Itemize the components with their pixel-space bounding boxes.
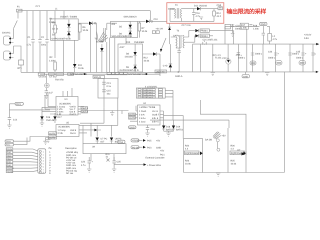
wire U3 pins left [42,107,56,114]
svg-text:OUT2: OUT2 [129,117,136,120]
svg-text:+24 VA: +24 VA [156,28,164,31]
wire U4 pins left [130,111,138,121]
svg-text:+24V out: +24V out [66,159,76,162]
svg-text:4 Rt: 4 Rt [57,113,62,116]
diode D16 [40,116,43,119]
svg-text:OutB 7: OutB 7 [152,114,160,117]
svg-text:1 OutA: 1 OutA [139,110,147,113]
net oval SB2 [131,146,139,149]
highlight red box [167,3,224,24]
ground g10 [46,140,50,143]
net oval GND2 [242,75,250,78]
svg-text:Gnd 5: Gnd 5 [70,113,77,116]
diode D18 [162,126,165,129]
svg-text:1: 1 [43,150,44,153]
svg-text:4 Gnd: 4 Gnd [139,121,146,124]
svg-text:10.0k: 10.0k [78,67,84,70]
svg-text:5: 5 [43,162,44,165]
thermistor RT1 [19,60,24,65]
svg-text:1000 u: 1000 u [268,57,276,60]
net label OUT3 [49,132,57,135]
wire fb lines [42,92,56,109]
svg-text:TNY278: TNY278 [55,79,64,82]
svg-text:C7 2n2: C7 2n2 [49,75,57,78]
svg-text:4: 4 [43,159,44,162]
capacitor C18 [146,125,149,133]
terminal out arrow [314,43,317,45]
wire vert x90 [90,23,92,72]
diode D7 [146,20,149,23]
svg-text:FQPF2N60M: FQPF2N60M [185,152,199,155]
diode D23 [94,129,97,132]
svg-text:1N4148: 1N4148 [125,56,134,59]
svg-text:PGood sig: PGood sig [66,169,77,172]
svg-text:C4 1n: C4 1n [52,28,59,31]
svg-text:Vcc 8: Vcc 8 [152,110,158,113]
svg-text:C25: C25 [117,161,122,164]
svg-text:0.1u: 0.1u [107,85,112,88]
svg-text:10.0k: 10.0k [185,163,191,166]
svg-text:U7 PC: U7 PC [101,138,108,141]
connector J1 pins [39,150,41,173]
wire column A [26,11,28,73]
net label box FR304a [200,29,209,32]
net oval CN4 [118,140,126,143]
capacitor C2 [38,11,41,73]
svg-text:GND: GND [7,151,12,154]
capacitor C12 [45,88,48,95]
AC plug P2 [4,51,11,60]
ground g4 [40,123,44,126]
wire U3 top stubs [63,88,72,97]
varistor RV1 [45,74,47,83]
switch SW1 [14,11,19,29]
wire TL431 col [193,44,239,72]
diode D5 [129,25,132,28]
svg-text:+24V: +24V [7,158,12,161]
svg-text:GND: GND [261,23,266,26]
ground g9 [216,173,220,176]
net label box BUS3 [56,73,64,75]
net label box R17 [240,23,248,29]
capacitor C1 [31,11,34,73]
diode D4 [73,64,76,67]
IC U4 [138,105,161,125]
svg-text:GND: GND [7,164,12,167]
svg-text:3 InA+: 3 InA+ [139,117,146,120]
svg-text:+5V: +5V [222,135,227,138]
svg-text:1000 u: 1000 u [296,57,304,60]
svg-text:DA DB: DA DB [205,139,212,142]
box caps group [98,78,118,98]
svg-text:+5V: +5V [156,140,161,143]
capacitor C3 [45,11,48,73]
svg-text:C17 2.2n: C17 2.2n [182,24,192,27]
wire U5 pins [46,130,95,138]
svg-text:GND: GND [156,146,161,149]
fuse F1 [17,9,23,12]
wire fb bus y120 [150,120,229,128]
mos cell left rails [184,139,203,173]
svg-text:C14: C14 [13,119,18,122]
svg-text:10.0k: 10.0k [142,30,148,33]
svg-text:R31: R31 [106,153,111,156]
svg-text:C35: C35 [296,51,301,54]
capacitor C31 [237,53,240,55]
svg-text:2: 2 [43,153,44,156]
junction sq2 [146,73,148,75]
svg-text:GND: GND [7,161,12,164]
diode D14 [169,64,172,67]
net label box FR304b [200,34,209,37]
svg-text:CY1: CY1 [36,5,41,8]
mosfet Q1 symbol [200,152,203,156]
svg-text:R17: R17 [241,24,246,27]
wire U3 pins right [78,107,88,114]
wire U4 right pins [160,111,164,120]
diode D2 [67,32,70,36]
wire stack to fb [165,90,173,120]
svg-text:R10: R10 [126,41,131,44]
wire vert x63 [63,40,65,72]
capacitor C16 [192,9,195,22]
svg-text:D16: D16 [46,116,51,119]
svg-text:SMAJ400/SMBJ154: SMAJ400/SMBJ154 [112,35,133,38]
svg-text:1 Comp: 1 Comp [58,129,67,132]
svg-text:2 Vfb: 2 Vfb [58,132,64,135]
svg-text:GND-A: GND-A [175,75,183,78]
svg-text:GAPGO4087-01 B: GAPGO4087-01 B [52,38,71,41]
ground g11 [87,169,91,172]
capacitor C24 [87,157,91,169]
svg-text:D17: D17 [58,116,63,119]
svg-text:1N5406M: 1N5406M [156,70,166,73]
ground g13 [43,138,47,145]
ground g12 [112,169,116,172]
svg-text:220u: 220u [41,44,47,47]
svg-text:PS-ON ctl: PS-ON ctl [66,156,77,159]
svg-text:6: 6 [43,165,44,168]
wire right drop [159,54,161,76]
wire clamp out [78,22,88,24]
diode D20 [242,152,245,155]
svg-text:1.40k: 1.40k [253,28,259,31]
ground snub [231,34,235,37]
winding arrow [161,38,166,50]
svg-text:C18: C18 [151,128,156,131]
TVS clamp box U2 [111,21,138,37]
svg-text:8: 8 [43,171,44,174]
wire fb elbow2 [200,100,246,140]
wire primary bus upper [21,71,160,73]
node junction [94,22,96,24]
svg-text:D11 1N4148: D11 1N4148 [194,4,207,7]
IC U9 wide [83,144,126,154]
junction sq1 [84,73,86,75]
svg-text:FAN-: FAN- [6,144,11,147]
net label row mid [107,72,111,74]
net label box BUS1 [38,73,45,75]
svg-text:CN3: CN3 [16,103,21,106]
wire vert x109 [110,38,115,73]
svg-text:EER28: EER28 [96,41,104,44]
diode D11 [197,7,200,10]
mosfet Q1 label [185,151,200,155]
wire drop x150 [149,11,151,22]
diode D9 [134,65,137,68]
resistor R7 [138,21,140,37]
opto U7 [96,138,99,141]
ground g6 [145,133,149,136]
wire opto drops [83,123,112,144]
diode D3 [89,22,93,26]
wire diodes join [164,131,174,132]
svg-text:NC res: NC res [66,172,74,175]
svg-text:GAPGO4087-01 B: GAPGO4087-01 B [120,69,139,72]
wire connector fan [13,137,38,172]
svg-text:+5VSB: +5VSB [132,140,140,143]
svg-text:R21 4.3: R21 4.3 [213,54,222,57]
IC U3 [56,97,78,116]
svg-text:BAT54: BAT54 [176,129,184,132]
wire output gnd bus [213,71,313,73]
net oval GND3 [129,126,137,129]
svg-text:D18: D18 [166,126,171,129]
svg-text:R18: R18 [253,25,258,28]
diode D4b [100,48,103,51]
terminal gnd arrow [313,71,316,73]
svg-text:C31 +: C31 + [236,54,243,57]
ground g7 [166,133,170,136]
capacitor C23 [249,25,252,27]
net label box BUS3b [68,73,74,75]
svg-text:OUT2: OUT2 [49,137,56,140]
mosfet Q2 symbol [243,152,246,156]
wire aux bottom [170,18,214,21]
capacitor C22 [231,24,234,33]
ground aux [200,17,204,20]
net label OUT2 [81,110,88,113]
ground g5 [110,113,114,116]
wire mid link [160,71,213,74]
diode D1 [67,24,70,28]
svg-text:GND com: GND com [66,164,76,167]
polyfuse F2 [250,61,256,65]
svg-text:PGOOD: PGOOD [7,167,15,170]
svg-text:GND: GND [130,126,135,129]
svg-text:C33: C33 [268,51,273,54]
LED opto D15 [226,59,231,64]
transistor Q4 [216,139,219,142]
net oval GND1 [260,22,268,25]
svg-text:+24V out: +24V out [66,162,76,165]
svg-text:P GND out 4: P GND out 4 [143,96,153,99]
svg-text:C10: C10 [154,18,159,21]
diode D19 [172,126,175,129]
resistor R6 [79,23,81,40]
svg-text:1N4148: 1N4148 [46,119,55,122]
wire primary bus lower [40,73,160,75]
svg-text:1000 u: 1000 u [238,57,246,60]
svg-text:输出限流的采样: 输出限流的采样 [227,7,267,15]
svg-text:R24: R24 [185,145,190,148]
wire top rail [18,10,150,12]
wire annotation link [114,164,144,166]
svg-text:C24: C24 [81,161,86,164]
svg-text:RT1: RT1 [18,67,23,70]
svg-text:A B7: A B7 [120,46,126,49]
svg-text:R25: R25 [231,160,236,163]
svg-text:+24V: +24V [7,154,12,157]
wire sec mid [184,41,195,43]
svg-text:1000 u: 1000 u [255,53,263,56]
capacitor C14 [8,104,15,125]
svg-text:Vref 8: Vref 8 [70,129,77,132]
svg-text:CN5: CN5 [217,4,222,7]
svg-text:C16: C16 [196,12,201,15]
wire sec top [184,31,195,37]
capacitor C25 [112,157,116,169]
svg-text:OUT1: OUT1 [49,132,56,135]
capacitor C20 [177,51,180,72]
ground out [265,73,269,76]
svg-text:GND com: GND com [66,167,76,170]
resistor R14 [213,9,215,22]
svg-text:PS-ON: PS-ON [132,146,140,149]
svg-text:C22 u: C22 u [222,57,229,60]
svg-text:R12: R12 [144,57,149,60]
net label mid-box [155,70,167,73]
svg-text:4.7u: 4.7u [27,44,32,47]
svg-text:OUT1: OUT1 [82,107,89,110]
svg-text:UC3842BN: UC3842BN [59,103,71,106]
wire U4 feed [88,106,137,114]
node junction2 [151,21,153,23]
TVS clamp box U2B [118,44,143,72]
ground TL [211,73,215,76]
svg-text:C+D: C+D [163,64,168,67]
svg-text:PSON: PSON [7,148,13,151]
ground g1 [44,95,48,98]
svg-text:4.7u: 4.7u [273,38,278,41]
svg-text:R26: R26 [231,145,236,148]
svg-text:Description: Description [65,147,77,150]
svg-text:PS5: PS5 [147,140,152,143]
svg-text:+5VSB: +5VSB [7,170,14,173]
svg-text:C22: C22 [236,25,241,28]
zener D21 [107,159,110,162]
net label box aux out [218,7,223,10]
net label pair mid [152,31,155,34]
svg-text:R14: R14 [217,12,222,15]
svg-text:R A: R A [52,22,56,25]
net label box BUS2 [49,73,55,75]
net label SMAJ [93,75,105,78]
svg-text:TL431: TL431 [215,57,222,60]
net label U4 OUT1 [129,113,136,116]
svg-text:3: 3 [43,156,44,159]
svg-text:FR304: FR304 [201,35,209,38]
clamp box U-snubber [51,19,79,40]
diode D17 [53,116,56,119]
svg-text:+ Power Wire: + Power Wire [147,164,162,167]
ground g3 [7,125,11,128]
net label OUT4 [49,136,57,139]
svg-text:LM258 / TS358: LM258 / TS358 [140,106,156,109]
wire fb elbow1 [164,116,184,139]
svg-text:220VAC: 220VAC [2,32,11,35]
svg-text:A B: A B [112,23,116,26]
mos cell right rails [228,128,246,173]
wire mid verticals [79,98,118,125]
diode D8 [134,52,137,55]
diode D22 aux [168,27,171,30]
junction plus [177,71,179,73]
svg-text:10.0k: 10.0k [231,163,237,166]
svg-text:GAPGO4087-01 B: GAPGO4087-01 B [128,73,147,76]
diode D6 [129,31,132,34]
net label pins col [5,140,14,173]
capacitor C32 [251,53,254,55]
IC U5 [56,125,79,137]
diode D12 [195,29,198,32]
svg-text:0.5A: 0.5A [304,37,309,40]
capacitor C28 [262,26,265,44]
capacitor C33 [274,53,277,55]
svg-text:+24.0V: +24.0V [304,34,312,37]
wire output rail [193,43,314,45]
wire neutral [14,46,22,60]
wire right rail long [283,72,285,173]
opto U8 [110,138,113,141]
svg-text:C13: C13 [107,82,112,85]
svg-text:SMAJ400CA: SMAJ400CA [124,16,138,19]
polyfuse F4 [299,61,306,66]
svg-text:InB- 6: InB- 6 [152,117,159,120]
svg-text:4.7u: 4.7u [81,164,86,167]
capacitor C34 [288,53,291,55]
svg-text:GND com: GND com [66,154,76,157]
wire snubber row [225,25,259,27]
svg-text:OUT1: OUT1 [129,113,136,116]
svg-text:+5VSB stby: +5VSB stby [66,151,79,154]
svg-text:PS3: PS3 [147,146,152,149]
diode D10 [153,52,156,56]
diode D13 [195,34,198,37]
mosfet Q2 label [230,151,245,155]
polyfuse F3 [276,61,283,66]
net label CN3 [15,102,23,105]
svg-text:1N4007 / 5408M: 1N4007 / 5408M [60,15,77,18]
svg-text:InB+ 5: InB+ 5 [152,121,159,124]
resistor R16 [225,24,231,29]
svg-text:1N5408M: 1N5408M [134,41,144,44]
svg-text:TL431: TL431 [211,39,218,42]
transformer T1 core [97,23,109,72]
svg-text:OUT2: OUT2 [82,111,89,114]
svg-text:GND: GND [243,75,248,78]
svg-text:Out 6: Out 6 [70,132,76,135]
wire box2-box3 link [125,38,127,44]
svg-text:4.7u: 4.7u [196,15,201,18]
svg-text:PG1: PG1 [160,154,165,157]
wire out caps drops [253,44,314,72]
connector J1 body [38,149,46,174]
AC plug P1 [4,36,11,45]
net oval SB1 [131,139,139,142]
svg-text:2 InA-: 2 InA- [139,114,145,117]
transistor Q3 fan [213,132,221,139]
